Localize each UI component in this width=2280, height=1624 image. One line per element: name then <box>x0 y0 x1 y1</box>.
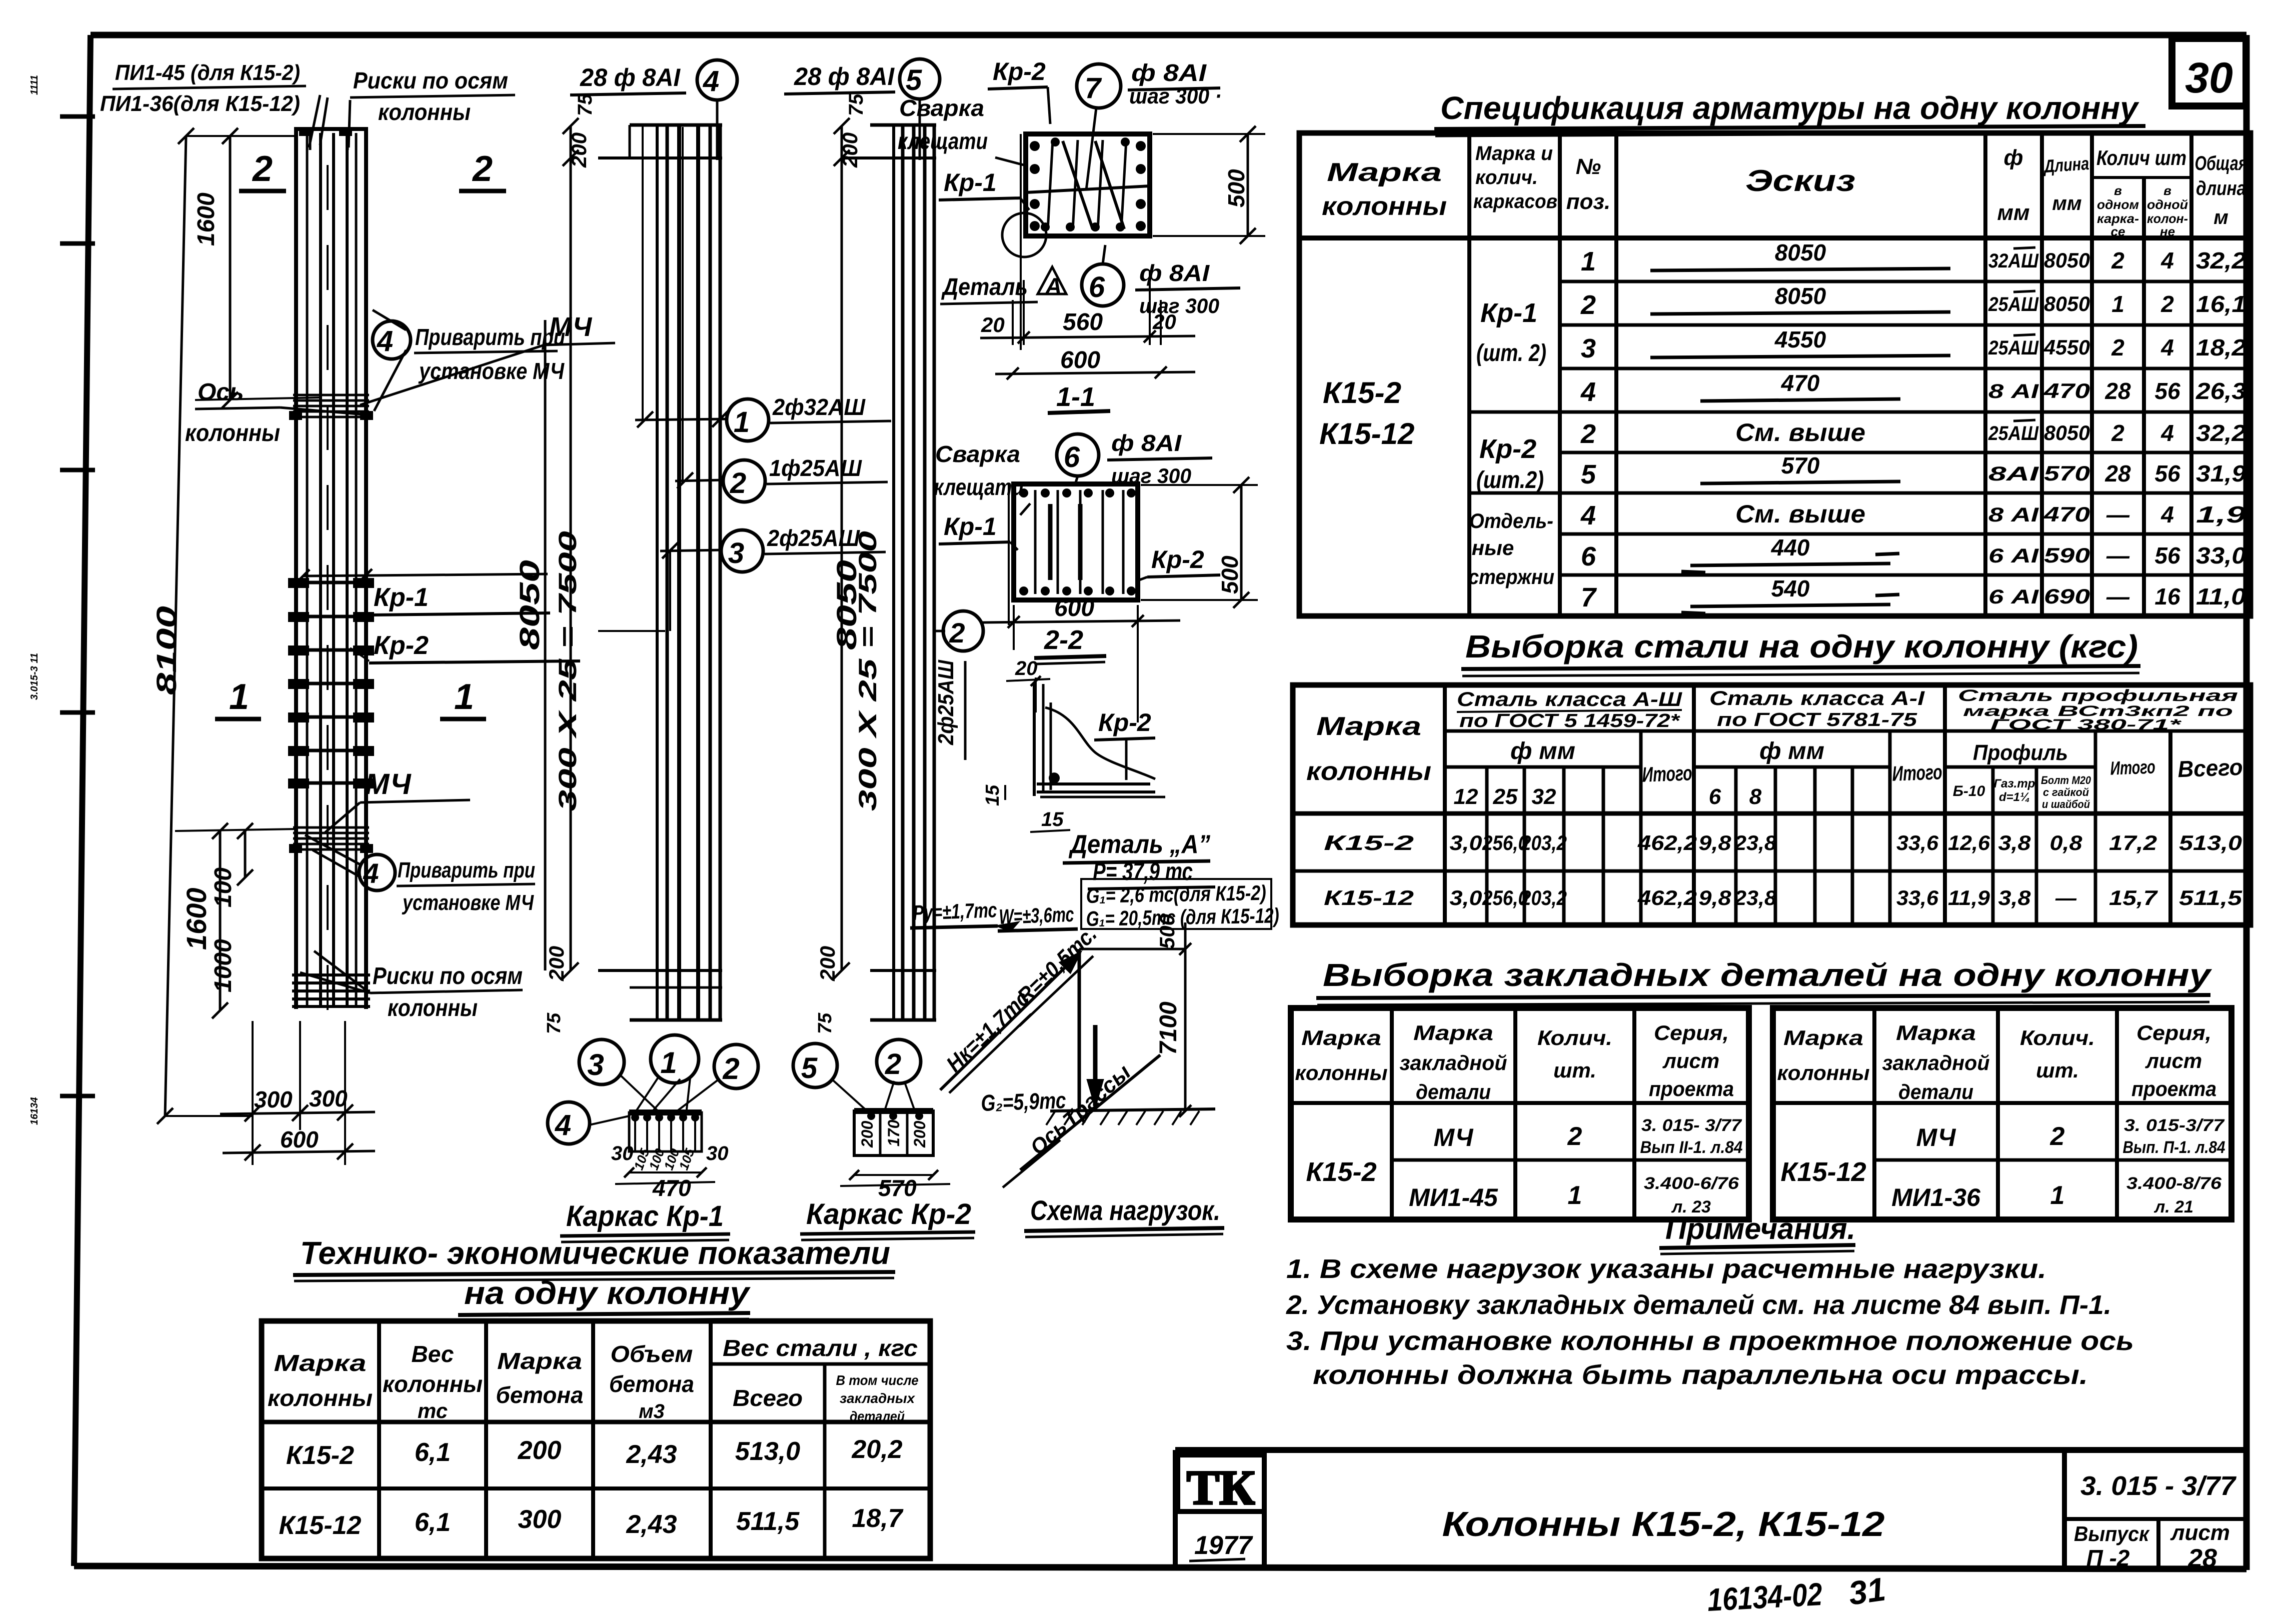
svg-text:ф: ф <box>2004 145 2023 170</box>
svg-text:1600: 1600 <box>193 192 220 246</box>
svg-text:Кр-2: Кр-2 <box>1479 434 1536 464</box>
svg-text:75: 75 <box>544 1012 565 1034</box>
svg-text:шт.: шт. <box>2036 1058 2079 1082</box>
svg-text:колонны: колонны <box>268 1385 373 1411</box>
svg-text:стержни: стержни <box>1468 565 1554 588</box>
svg-text:се: се <box>2111 224 2125 239</box>
svg-text:Схема нагрузок.: Схема нагрузок. <box>1030 1194 1220 1226</box>
svg-text:3: 3 <box>1581 333 1596 363</box>
svg-text:300 X 25 = 7500: 300 X 25 = 7500 <box>854 531 882 811</box>
svg-text:1: 1 <box>734 406 750 438</box>
svg-text:5: 5 <box>906 64 922 96</box>
svg-text:170: 170 <box>885 1119 903 1146</box>
svg-text:4550: 4550 <box>2043 335 2090 359</box>
svg-text:МЧ: МЧ <box>1434 1123 1474 1151</box>
svg-text:колич.: колич. <box>1475 166 1538 188</box>
svg-text:33,6: 33,6 <box>1896 886 1939 909</box>
svg-text:2: 2 <box>2111 247 2124 273</box>
svg-text:3,8: 3,8 <box>1998 886 2031 909</box>
svg-text:6 АI: 6 АI <box>1988 586 2039 608</box>
svg-text:8050: 8050 <box>2044 248 2090 272</box>
svg-text:300: 300 <box>254 1086 293 1112</box>
svg-text:2. Установку закладных детал: 2. Установку закладных деталей см. на ли… <box>1286 1290 2111 1320</box>
svg-text:600: 600 <box>1060 347 1100 373</box>
svg-text:ГОСТ 380-71*: ГОСТ 380-71* <box>1990 716 2182 733</box>
svg-text:4: 4 <box>2160 247 2174 273</box>
svg-text:Приварить при: Приварить при <box>398 858 535 882</box>
svg-text:1: 1 <box>229 677 249 717</box>
svg-text:6 АI: 6 АI <box>1988 545 2039 567</box>
svg-text:28 ф 8АI: 28 ф 8АI <box>580 63 681 91</box>
svg-text:одной: одной <box>2147 197 2188 212</box>
svg-text:Марка: Марка <box>274 1350 367 1376</box>
svg-text:по ГОСТ 5 1459-72*: по ГОСТ 5 1459-72* <box>1459 710 1681 731</box>
svg-text:203,2: 203,2 <box>1520 831 1567 854</box>
svg-text:Выборка закладных деталей н: Выборка закладных деталей на одну колонн… <box>1323 957 2212 993</box>
svg-text:7: 7 <box>1581 582 1597 612</box>
svg-text:9,8: 9,8 <box>1699 831 1732 854</box>
svg-text:33,0: 33,0 <box>2196 542 2246 568</box>
svg-text:Риски по осям: Риски по осям <box>353 67 508 93</box>
svg-text:470: 470 <box>2043 379 2090 402</box>
svg-text:8100: 8100 <box>151 606 182 695</box>
svg-text:4: 4 <box>1580 377 1596 407</box>
svg-text:2: 2 <box>885 1048 901 1080</box>
svg-text:4: 4 <box>2160 501 2174 527</box>
svg-text:мм: мм <box>1997 200 2029 225</box>
svg-text:1: 1 <box>2111 291 2124 317</box>
svg-text:462,2: 462,2 <box>1637 831 1697 854</box>
svg-text:2: 2 <box>722 1052 739 1085</box>
svg-text:—: — <box>2106 583 2130 609</box>
svg-text:590: 590 <box>2044 543 2090 567</box>
svg-text:К15-12: К15-12 <box>1324 886 1414 909</box>
svg-text:8050: 8050 <box>2044 421 2090 444</box>
svg-text:75: 75 <box>815 1012 836 1034</box>
svg-text:28: 28 <box>2187 1544 2217 1573</box>
svg-text:511,5: 511,5 <box>736 1507 800 1536</box>
svg-text:Деталь: Деталь <box>941 274 1028 300</box>
svg-text:32,2: 32,2 <box>2196 420 2246 446</box>
svg-text:4: 4 <box>377 325 393 357</box>
svg-text:570: 570 <box>2044 461 2090 485</box>
svg-text:колонны: колонны <box>1777 1061 1870 1084</box>
svg-text:колонны: колонны <box>185 420 280 446</box>
svg-text:Сталь класса А-I: Сталь класса А-I <box>1709 687 1925 709</box>
svg-text:500: 500 <box>1155 914 1179 949</box>
svg-text:16: 16 <box>2154 583 2180 609</box>
svg-text:Вып. П-1. л.84: Вып. П-1. л.84 <box>2123 1138 2225 1157</box>
svg-text:Газ.тр: Газ.тр <box>1994 777 2035 790</box>
svg-text:длина: длина <box>2196 177 2246 199</box>
svg-text:3.400-6/76: 3.400-6/76 <box>1644 1174 1739 1193</box>
svg-text:Выпуск: Выпуск <box>2074 1522 2150 1545</box>
svg-text:Ось: Ось <box>198 379 244 405</box>
svg-text:28: 28 <box>2104 378 2131 404</box>
svg-text:1: 1 <box>2050 1181 2065 1210</box>
svg-text:25АШ: 25АШ <box>1988 337 2039 359</box>
svg-text:500: 500 <box>1217 555 1243 594</box>
svg-text:200: 200 <box>858 1120 876 1148</box>
svg-text:8050: 8050 <box>514 560 545 650</box>
svg-text:Спецификация арматуры на одн: Спецификация арматуры на одну колонну <box>1440 90 2139 126</box>
svg-text:4: 4 <box>2160 420 2174 446</box>
svg-text:1,9: 1,9 <box>2196 501 2246 527</box>
svg-text:См. выше: См. выше <box>1735 500 1865 528</box>
svg-text:17,2: 17,2 <box>2109 831 2157 854</box>
svg-text:м: м <box>2213 206 2228 228</box>
svg-text:2,43: 2,43 <box>626 1510 677 1539</box>
svg-text:не: не <box>2160 224 2175 239</box>
svg-text:15,7: 15,7 <box>2109 886 2158 909</box>
svg-text:4: 4 <box>555 1109 571 1141</box>
svg-text:56: 56 <box>2154 542 2180 568</box>
svg-text:560: 560 <box>1063 309 1103 335</box>
svg-text:колонны: колонны <box>1322 192 1447 221</box>
svg-text:К15-12: К15-12 <box>1780 1157 1866 1187</box>
svg-text:25АШ: 25АШ <box>1988 293 2039 315</box>
svg-text:2ф25АШ: 2ф25АШ <box>767 525 860 551</box>
svg-text:20: 20 <box>1015 657 1038 679</box>
svg-text:1977: 1977 <box>1194 1531 1253 1560</box>
svg-text:по ГОСТ 5781-75: по ГОСТ 5781-75 <box>1717 709 1917 730</box>
svg-text:G₁= 2,6 тс(для К15-2): G₁= 2,6 тс(для К15-2) <box>1086 881 1266 907</box>
svg-text:Колич.: Колич. <box>1537 1026 1612 1049</box>
svg-text:клещати: клещати <box>934 474 1024 500</box>
svg-text:2,43: 2,43 <box>626 1440 677 1469</box>
svg-text:6,1: 6,1 <box>415 1438 451 1467</box>
svg-text:—: — <box>2055 886 2077 909</box>
svg-text:3. 015-3/77: 3. 015-3/77 <box>2124 1116 2225 1135</box>
svg-text:8АI: 8АI <box>1988 463 2039 485</box>
svg-text:2: 2 <box>2050 1122 2065 1151</box>
svg-text:детали: детали <box>1416 1080 1491 1103</box>
svg-text:Итого: Итого <box>2110 756 2155 779</box>
svg-text:Колонны К15-2, К15-12: Колонны К15-2, К15-12 <box>1442 1504 1885 1543</box>
svg-text:12: 12 <box>1454 784 1478 809</box>
svg-text:лист: лист <box>2170 1520 2230 1545</box>
svg-text:Вып II-1. л.84: Вып II-1. л.84 <box>1640 1138 1743 1157</box>
svg-text:Всего: Всего <box>733 1385 803 1411</box>
svg-text:23,8: 23,8 <box>1734 886 1777 909</box>
svg-text:Объем: Объем <box>611 1341 693 1367</box>
svg-text:440: 440 <box>1771 534 1810 560</box>
svg-text:Кр-1: Кр-1 <box>944 168 997 196</box>
svg-text:Кр-2: Кр-2 <box>1151 545 1204 573</box>
svg-text:200: 200 <box>911 1120 929 1148</box>
svg-text:Болт М20: Болт М20 <box>2041 774 2091 786</box>
svg-text:G₂=5,9тс: G₂=5,9тс <box>981 1087 1067 1116</box>
svg-text:1. В схеме нагрузок указаны: 1. В схеме нагрузок указаны расчетные на… <box>1286 1254 2046 1284</box>
svg-text:300: 300 <box>309 1085 348 1111</box>
svg-text:570: 570 <box>1781 452 1820 478</box>
svg-text:Р= 37,9 тс: Р= 37,9 тс <box>1093 857 1193 885</box>
svg-text:установке МЧ: установке МЧ <box>402 890 534 915</box>
svg-text:поз.: поз. <box>1566 189 1610 214</box>
svg-text:шаг 300 ·: шаг 300 · <box>1129 84 1222 108</box>
svg-text:32,2: 32,2 <box>2196 247 2246 273</box>
svg-text:Колич шт: Колич шт <box>2096 146 2186 169</box>
svg-text:3. 015 - 3/77: 3. 015 - 3/77 <box>2080 1471 2237 1501</box>
svg-text:Кр-1: Кр-1 <box>1480 298 1537 328</box>
svg-text:Вес: Вес <box>412 1341 454 1367</box>
svg-text:2: 2 <box>1580 419 1596 449</box>
svg-text:23,8: 23,8 <box>1734 831 1777 854</box>
svg-text:Каркас Кр-1: Каркас Кр-1 <box>566 1200 724 1232</box>
svg-text:8050: 8050 <box>2044 292 2090 315</box>
svg-text:200: 200 <box>567 132 591 168</box>
svg-text:16,1: 16,1 <box>2196 291 2246 317</box>
svg-text:6: 6 <box>1089 271 1105 303</box>
svg-text:2: 2 <box>1567 1122 1582 1151</box>
svg-text:Серия,: Серия, <box>1654 1021 1729 1044</box>
svg-text:20: 20 <box>981 313 1005 336</box>
svg-text:закладных: закладных <box>840 1390 915 1406</box>
svg-text:31: 31 <box>1846 1570 1888 1611</box>
svg-text:3: 3 <box>587 1048 604 1081</box>
svg-text:570: 570 <box>878 1175 917 1201</box>
svg-text:1-1: 1-1 <box>1056 382 1095 412</box>
svg-text:Примечания.: Примечания. <box>1665 1212 1855 1245</box>
svg-text:75: 75 <box>845 93 867 116</box>
svg-text:Сталь профильная: Сталь профильная <box>1958 686 2238 704</box>
svg-text:в: в <box>2163 183 2171 198</box>
svg-text:каркасов: каркасов <box>1473 190 1557 212</box>
svg-text:6: 6 <box>1064 441 1080 473</box>
svg-text:511,5: 511,5 <box>2179 886 2242 909</box>
svg-text:3,0: 3,0 <box>1450 831 1482 854</box>
svg-text:колонны должна быть парал: колонны должна быть параллельна оси трас… <box>1313 1360 2088 1390</box>
svg-text:30: 30 <box>2185 54 2233 102</box>
svg-text:детали: детали <box>1898 1080 1973 1103</box>
svg-text:16134: 16134 <box>29 1097 40 1125</box>
svg-text:ПИ1-36(для К15-12): ПИ1-36(для К15-12) <box>100 91 300 116</box>
svg-text:с гайкой: с гайкой <box>2043 786 2089 798</box>
svg-text:ф 8АI: ф 8АI <box>1111 430 1182 456</box>
svg-text:203,2: 203,2 <box>1520 886 1567 909</box>
svg-text:К15-12: К15-12 <box>1319 417 1414 450</box>
svg-text:4: 4 <box>2160 334 2174 360</box>
svg-text:0,8: 0,8 <box>2050 831 2083 854</box>
svg-text:513,0: 513,0 <box>735 1437 800 1466</box>
svg-text:л. 21: л. 21 <box>2153 1197 2193 1216</box>
svg-text:—: — <box>2106 501 2130 527</box>
svg-text:2ф25АШ: 2ф25АШ <box>934 659 958 745</box>
svg-text:ПИ1-45 (для К15-2): ПИ1-45 (для К15-2) <box>115 60 300 85</box>
svg-text:Отдель-: Отдель- <box>1469 509 1553 532</box>
svg-text:540: 540 <box>1771 575 1810 601</box>
svg-text:30: 30 <box>706 1142 729 1164</box>
svg-text:30: 30 <box>611 1142 634 1164</box>
svg-text:15: 15 <box>1041 808 1064 830</box>
svg-text:300 X 25 = 7500: 300 X 25 = 7500 <box>554 531 582 811</box>
svg-text:4550: 4550 <box>1774 326 1826 352</box>
svg-text:Общая: Общая <box>2195 152 2247 174</box>
svg-text:3,8: 3,8 <box>1998 831 2031 854</box>
svg-text:клещати: клещати <box>898 128 988 154</box>
svg-text:Кр-1: Кр-1 <box>944 512 997 540</box>
svg-text:К15-2: К15-2 <box>1324 831 1414 854</box>
svg-text:32АШ: 32АШ <box>1988 250 2039 272</box>
svg-text:проекта: проекта <box>1649 1077 1734 1100</box>
svg-text:600: 600 <box>1054 595 1094 621</box>
svg-text:32: 32 <box>1532 784 1556 809</box>
svg-text:6: 6 <box>1709 784 1721 809</box>
svg-text:лист: лист <box>1662 1049 1720 1072</box>
svg-text:9,8: 9,8 <box>1699 886 1732 909</box>
svg-text:8: 8 <box>1749 784 1762 809</box>
svg-text:470: 470 <box>1781 370 1820 396</box>
svg-text:8050: 8050 <box>1775 239 1826 265</box>
svg-text:1ф25АШ: 1ф25АШ <box>769 455 862 481</box>
svg-text:7: 7 <box>1085 72 1102 104</box>
svg-text:513,0: 513,0 <box>2179 831 2242 854</box>
svg-text:ТК: ТК <box>1187 1461 1255 1515</box>
svg-text:Профиль: Профиль <box>1973 740 2068 765</box>
svg-text:2: 2 <box>1580 290 1596 320</box>
svg-text:1: 1 <box>660 1046 677 1079</box>
svg-text:Деталь „А”: Деталь „А” <box>1068 830 1210 859</box>
svg-text:75: 75 <box>574 93 596 116</box>
svg-text:Марка: Марка <box>1413 1021 1493 1044</box>
svg-text:4: 4 <box>1580 500 1596 530</box>
svg-text:18,7: 18,7 <box>852 1504 903 1533</box>
svg-text:Итого: Итого <box>1892 760 1943 785</box>
svg-text:33,6: 33,6 <box>1896 831 1939 854</box>
svg-text:15: 15 <box>982 784 1003 806</box>
svg-text:56: 56 <box>2154 378 2180 404</box>
svg-text:Серия,: Серия, <box>2136 1021 2211 1044</box>
svg-text:МИ1-36: МИ1-36 <box>1891 1183 1981 1211</box>
svg-text:ф мм: ф мм <box>1759 738 1824 764</box>
svg-text:690: 690 <box>2044 584 2090 608</box>
svg-text:28 ф 8АI: 28 ф 8АI <box>794 62 895 90</box>
svg-text:К15-2: К15-2 <box>1306 1157 1376 1187</box>
svg-text:5: 5 <box>1581 459 1596 489</box>
svg-text:1000: 1000 <box>210 939 237 992</box>
svg-text:К15-2: К15-2 <box>286 1441 354 1470</box>
svg-text:ф мм: ф мм <box>1510 738 1575 764</box>
svg-text:25: 25 <box>1493 784 1518 809</box>
svg-text:6: 6 <box>1581 541 1596 571</box>
svg-text:2: 2 <box>730 467 746 499</box>
svg-text:8 АI: 8 АI <box>1988 380 2039 402</box>
svg-text:Эскиз: Эскиз <box>1745 164 1855 197</box>
svg-text:18,2: 18,2 <box>2196 334 2246 360</box>
svg-text:1600: 1600 <box>181 887 212 950</box>
svg-text:462,2: 462,2 <box>1637 886 1697 909</box>
svg-text:26,3: 26,3 <box>2195 378 2246 404</box>
svg-text:Кр-2: Кр-2 <box>1098 708 1151 736</box>
svg-text:К15-12: К15-12 <box>279 1511 362 1540</box>
svg-text:В том числе: В том числе <box>836 1372 919 1388</box>
svg-text:200: 200 <box>518 1436 562 1465</box>
svg-text:d=1¼: d=1¼ <box>1999 790 2030 804</box>
svg-text:бетона: бетона <box>609 1371 694 1397</box>
svg-text:МИ1-45: МИ1-45 <box>1409 1183 1498 1211</box>
svg-text:1111: 1111 <box>29 75 40 95</box>
svg-text:7100: 7100 <box>1155 1001 1182 1055</box>
svg-text:6,1: 6,1 <box>415 1508 451 1537</box>
svg-text:Марка: Марка <box>1316 712 1421 741</box>
svg-text:Длина: Длина <box>2042 153 2089 176</box>
svg-text:деталей: деталей <box>850 1408 905 1424</box>
svg-text:установке МЧ: установке МЧ <box>418 358 565 384</box>
svg-text:—: — <box>2106 542 2130 568</box>
svg-text:12,6: 12,6 <box>1948 831 1990 854</box>
svg-text:200: 200 <box>838 132 862 168</box>
svg-text:Кр-2: Кр-2 <box>993 57 1046 85</box>
svg-text:ф 8АI: ф 8АI <box>1131 60 1207 86</box>
svg-text:200: 200 <box>545 946 568 981</box>
svg-text:28: 28 <box>2104 460 2131 486</box>
svg-text:11,0: 11,0 <box>2196 583 2246 609</box>
svg-text:Технико- экономические пока: Технико- экономические показатели <box>300 1235 890 1271</box>
svg-text:8050: 8050 <box>1775 283 1826 309</box>
svg-text:2: 2 <box>2111 334 2124 360</box>
svg-text:G₁= 20,5тс (для К15-12): G₁= 20,5тс (для К15-12) <box>1086 903 1279 930</box>
svg-text:колонны: колонны <box>1306 757 1431 786</box>
svg-text:600: 600 <box>280 1126 319 1152</box>
svg-text:Марка: Марка <box>497 1348 582 1374</box>
svg-text:№: № <box>1576 154 1601 179</box>
svg-text:Марка: Марка <box>1783 1026 1863 1049</box>
svg-text:шаг 300: шаг 300 <box>1139 294 1219 317</box>
svg-text:колонны: колонны <box>378 99 471 125</box>
svg-text:11,9: 11,9 <box>1948 886 1990 909</box>
svg-text:П -2: П -2 <box>2086 1545 2130 1571</box>
svg-text:2: 2 <box>472 149 493 189</box>
svg-text:2: 2 <box>2111 420 2124 446</box>
svg-text:2: 2 <box>949 617 965 648</box>
svg-text:колонны: колонны <box>1295 1061 1388 1084</box>
svg-text:м3: м3 <box>639 1400 665 1422</box>
svg-text:Приварить при: Приварить при <box>415 324 565 350</box>
svg-text:100: 100 <box>210 867 237 907</box>
svg-text:Марка: Марка <box>1896 1021 1976 1044</box>
svg-text:ные: ные <box>1472 536 1514 559</box>
svg-text:Сварка: Сварка <box>935 441 1020 467</box>
svg-text:3.015-3 11: 3.015-3 11 <box>29 653 40 700</box>
svg-text:Сварка: Сварка <box>899 95 984 121</box>
svg-text:500: 500 <box>1223 169 1249 207</box>
svg-text:К15-2: К15-2 <box>1323 376 1401 409</box>
svg-text:20: 20 <box>1152 310 1176 333</box>
svg-text:3,0: 3,0 <box>1450 886 1482 909</box>
svg-text:1: 1 <box>1581 246 1596 276</box>
svg-text:Марка: Марка <box>1327 158 1442 187</box>
svg-text:20,2: 20,2 <box>851 1435 902 1464</box>
svg-text:Колич.: Колич. <box>2020 1026 2095 1049</box>
svg-text:тс: тс <box>418 1399 448 1422</box>
svg-text:2: 2 <box>252 149 273 189</box>
svg-text:(шт.2): (шт.2) <box>1476 467 1544 493</box>
svg-text:в: в <box>2114 183 2122 198</box>
svg-text:470: 470 <box>2043 502 2090 526</box>
svg-text:Сталь класса А-Ш: Сталь класса А-Ш <box>1457 688 1682 710</box>
svg-text:колонны: колонны <box>388 995 478 1021</box>
svg-text:470: 470 <box>652 1175 691 1201</box>
svg-text:Марка: Марка <box>1301 1026 1381 1049</box>
svg-text:2-2: 2-2 <box>1044 625 1083 655</box>
svg-text:закладной: закладной <box>1400 1051 1507 1074</box>
svg-text:МЧ: МЧ <box>1916 1123 1957 1151</box>
svg-text:3.400-8/76: 3.400-8/76 <box>2126 1174 2222 1193</box>
svg-text:лист: лист <box>2145 1049 2202 1072</box>
svg-text:Кр-1: Кр-1 <box>374 583 429 612</box>
svg-text:200: 200 <box>816 946 839 981</box>
svg-text:МЧ: МЧ <box>365 768 412 800</box>
